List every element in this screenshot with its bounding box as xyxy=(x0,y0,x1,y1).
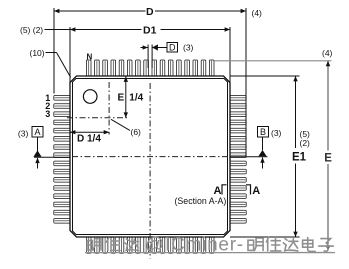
svg-text:(2): (2) xyxy=(300,138,311,148)
svg-text:N: N xyxy=(87,52,93,61)
svg-text:E1: E1 xyxy=(292,152,307,164)
svg-text:E: E xyxy=(324,153,332,165)
svg-text:(Section A-A): (Section A-A) xyxy=(175,196,227,206)
svg-text:(6): (6) xyxy=(131,127,142,137)
svg-text:1/4: 1/4 xyxy=(129,92,143,103)
svg-text:(3): (3) xyxy=(18,128,29,138)
svg-text:B: B xyxy=(260,127,266,137)
svg-text:(3): (3) xyxy=(183,43,194,53)
svg-text:D1: D1 xyxy=(143,24,157,36)
svg-text:3: 3 xyxy=(45,109,50,119)
svg-text:(3): (3) xyxy=(271,128,282,138)
svg-text:D 1/4: D 1/4 xyxy=(77,133,101,144)
svg-text:(10): (10) xyxy=(30,48,45,58)
svg-text:(5) (2): (5) (2) xyxy=(20,25,43,35)
svg-text:A: A xyxy=(252,185,260,197)
svg-text:A: A xyxy=(34,127,40,137)
svg-text:D: D xyxy=(146,6,154,18)
svg-text:(4): (4) xyxy=(252,8,263,18)
svg-text:D: D xyxy=(169,42,176,52)
svg-text:(4): (4) xyxy=(322,48,333,58)
svg-text:E: E xyxy=(118,92,125,103)
